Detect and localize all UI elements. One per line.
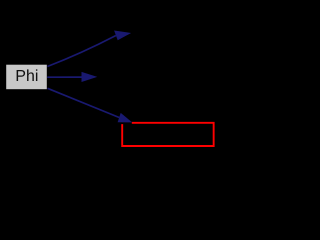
- node R1 (highlighted, red border; corner under arrowhead left open): [122, 123, 213, 146]
- wire edge2 arrowhead: [82, 72, 98, 82]
- wire edge1 arrowhead: [114, 31, 131, 41]
- wire edge3 arrowhead: [118, 113, 133, 123]
- wire edge3 shaft (Phi to red node): [48, 88, 120, 117]
- node Phi (grey box): [6, 65, 47, 90]
- wire edge2 shaft (Phi to middle node): [47, 76, 82, 78]
- wire edge1 shaft (Phi to top node): [47, 36, 116, 67]
- node Phi label "Phi" (Liberation Sans outlines): [17, 69, 38, 81]
